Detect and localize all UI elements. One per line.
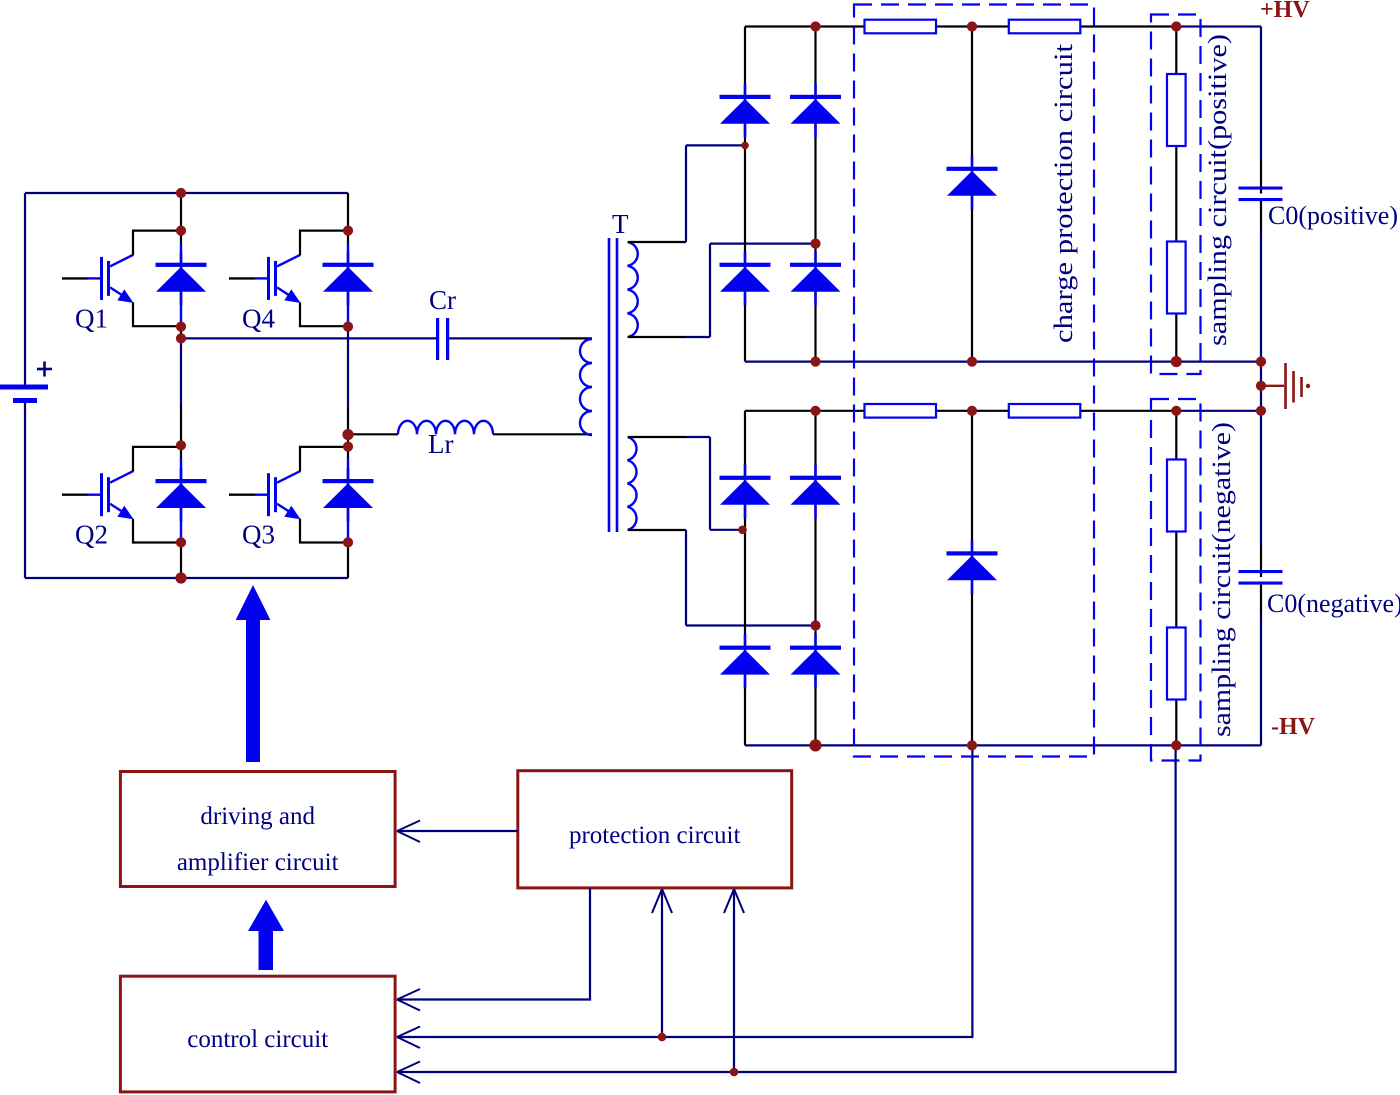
capacitor C0(positive) [1239, 187, 1399, 231]
capacitor C0(negative) [1239, 570, 1400, 618]
svg-text:C0(positive): C0(positive) [1268, 201, 1398, 230]
diode DR8 (negative rectifier bottom-right) [790, 634, 841, 688]
svg-text:C0(negative): C0(negative) [1267, 589, 1400, 618]
node negative rectifier left mid [738, 526, 747, 535]
node positive rectifier right mid [810, 239, 820, 249]
wire Lr to transformer primary bottom [493, 433, 592, 435]
wire protection to control (line 1) [397, 888, 590, 1011]
svg-text:-HV: -HV [1271, 714, 1316, 740]
svg-text:sampling circuit(positive): sampling circuit(positive) [1203, 34, 1232, 346]
svg-text:Lr: Lr [428, 429, 453, 459]
node ground tap [1256, 381, 1266, 391]
transformer T secondary winding (positive) [628, 242, 638, 337]
node sampling negative bottom [1171, 740, 1181, 750]
diode D3 antiparallel with Q3 [323, 468, 374, 522]
diode D6 (charge protection negative) [947, 540, 998, 594]
svg-text:Cr: Cr [429, 285, 456, 315]
transistor Q3 (IGBT) [229, 447, 348, 550]
wire positive rectifier top rail [745, 27, 1261, 98]
wire sampling positive chain [1175, 27, 1177, 362]
node bridge output B [342, 429, 353, 440]
node charge protection positive bottom [967, 357, 977, 367]
wire right leg upper (Q4 branch) [347, 193, 349, 327]
node negative rectifier bottom right [809, 739, 821, 751]
svg-text:charge protection circuit: charge protection circuit [1049, 43, 1078, 343]
wire left leg (Q1/Q2 junction down) [180, 338, 182, 542]
svg-text:driving and: driving and [200, 803, 315, 830]
svg-text:control circuit: control circuit [187, 1026, 328, 1053]
wire left leg upper (Q1 branch) [180, 193, 182, 327]
resistor R6 (sampling positive lower) [1167, 242, 1186, 314]
node sampling negative top [1171, 406, 1181, 416]
inductor Lr [398, 421, 493, 459]
wire protection to driving arrow [397, 821, 518, 843]
wire left leg lower [180, 542, 182, 578]
block arrow driving to H-bridge [236, 585, 271, 762]
node bridge bottom-left [175, 572, 186, 583]
node sampling positive bottom [1171, 356, 1182, 367]
svg-text:amplifier circuit: amplifier circuit [177, 849, 339, 876]
transistor Q1 (IGBT) [62, 231, 181, 334]
diode DR3 (positive rectifier top-right) [790, 84, 841, 138]
node negative rectifier right mid [810, 620, 820, 630]
diode DR5 (negative rectifier top-left) [720, 464, 771, 518]
node positive rectifier top rail [810, 21, 820, 31]
node control line 2 junction [658, 1033, 667, 1042]
transformer T core [609, 209, 629, 532]
svg-text:Q2: Q2 [75, 520, 108, 550]
block arrow control to driving [248, 900, 284, 970]
wire charge protection negative diode branch [971, 411, 973, 746]
wire negative rectifier left column [744, 506, 746, 745]
diode DR4 (positive rectifier bottom-right) [790, 251, 841, 305]
node charge protection negative bottom [967, 740, 977, 750]
node bridge top-left [176, 188, 186, 198]
node positive rectifier left mid [741, 142, 749, 150]
node Q1 emitter [176, 322, 186, 332]
node Q1 collector [176, 226, 186, 236]
node negative rectifier top rail [810, 406, 820, 416]
ground [1261, 363, 1310, 409]
resistor R3 (charge protection negative) [865, 404, 937, 418]
node bridge output A [176, 333, 186, 343]
svg-text:Q3: Q3 [242, 520, 275, 550]
node Q3 collector [343, 442, 353, 452]
node positive rectifier bottom right [810, 357, 820, 367]
wire right leg lower [347, 542, 349, 578]
node Q4 collector [343, 226, 353, 236]
wire feedback arrow up into protection (right) [724, 889, 744, 1072]
wire secondary(+) bottom tap to rectifier [628, 244, 816, 337]
protection circuit box [518, 771, 792, 888]
node sampling positive top [1171, 21, 1181, 31]
driving and amplifier circuit box [120, 772, 395, 887]
wire negative rectifier right column [814, 411, 816, 746]
node control line 3 junction [730, 1068, 739, 1077]
transistor Q4 (IGBT) [229, 231, 348, 334]
resistor R5 (sampling positive upper) [1167, 74, 1186, 146]
wire secondary(-) top tap to rectifier [628, 437, 743, 530]
wire negative rail to control (line 2) [397, 745, 972, 1048]
diode D5 (charge protection positive) [947, 155, 998, 209]
wire secondary(-) bottom tap to rectifier [628, 530, 816, 626]
wire charge protection positive diode branch [971, 27, 973, 362]
resistor R8 (sampling negative lower) [1167, 628, 1186, 700]
diode D2 antiparallel with Q2 [156, 468, 207, 522]
wire sampling negative chain [1175, 411, 1177, 746]
wire sampling to control (line 3) [397, 745, 1176, 1083]
wire left leg mid [180, 327, 182, 339]
diode DR2 (positive rectifier bottom-left) [720, 251, 771, 305]
node output rail at negative top [1256, 406, 1266, 416]
sampling circuit(negative) dashed box [1151, 399, 1201, 761]
transformer T primary winding [580, 339, 592, 435]
control circuit box [120, 976, 395, 1092]
charge protection circuit dashed box [854, 5, 1094, 757]
wire bottom rail of H-bridge [25, 577, 348, 579]
diode D4 antiparallel with Q4 [323, 251, 374, 305]
wire feedback arrow up into protection (left) [652, 889, 672, 1037]
svg-text:sampling circuit(negative): sampling circuit(negative) [1207, 422, 1236, 737]
resistor R1 (charge protection positive) [865, 20, 937, 34]
diode DR1 (positive rectifier top-left) [720, 84, 771, 138]
wire -HV output rail [1260, 411, 1262, 746]
diode DR6 (negative rectifier bottom-left) [720, 634, 771, 688]
diode DR7 (negative rectifier top-right) [790, 464, 841, 518]
DC source V (battery) [0, 193, 52, 578]
svg-text:+HV: +HV [1260, 0, 1310, 23]
resistor R7 (sampling negative upper) [1167, 460, 1186, 532]
wire top rail of H-bridge [25, 192, 348, 194]
node charge protection positive top [967, 21, 977, 31]
wire negative rectifier bottom rail [745, 744, 1261, 746]
svg-text:Q4: Q4 [242, 303, 275, 333]
transistor Q2 (IGBT) [62, 447, 181, 550]
svg-text:Q1: Q1 [75, 303, 108, 333]
capacitor Cr [429, 285, 456, 360]
wire Cr to transformer primary top [449, 337, 592, 339]
svg-text:T: T [612, 209, 629, 239]
sampling circuit(positive) dashed box [1151, 15, 1201, 375]
wire positive rectifier bottom rail [745, 361, 1261, 363]
node Q4 emitter [343, 322, 353, 332]
diode D1 antiparallel with Q1 [156, 251, 207, 305]
wire negative rectifier top rail [745, 411, 1261, 477]
node Q2 emitter [176, 537, 186, 547]
transformer T secondary winding (negative) [628, 437, 637, 530]
resistor R2 (charge protection positive) [1009, 20, 1081, 34]
wire positive rectifier right column [814, 27, 816, 362]
wire positive rectifier left column [744, 124, 746, 362]
wire +HV output rail [1260, 27, 1262, 362]
wire secondary(+) top tap to rectifier [628, 145, 745, 242]
node output rail at positive bottom [1256, 357, 1266, 367]
wire mid rail between sections [1260, 362, 1262, 411]
node Q3 emitter [343, 537, 353, 547]
wire bridge output A to Cr [181, 337, 436, 339]
wire right leg (Q4/Q3 junction down) [347, 327, 349, 543]
node charge protection negative top [967, 406, 977, 416]
resistor R4 (charge protection negative) [1009, 404, 1081, 418]
svg-text:protection circuit: protection circuit [569, 822, 741, 849]
wire bridge output B to Lr [348, 433, 398, 435]
node Q2 collector [176, 440, 186, 450]
